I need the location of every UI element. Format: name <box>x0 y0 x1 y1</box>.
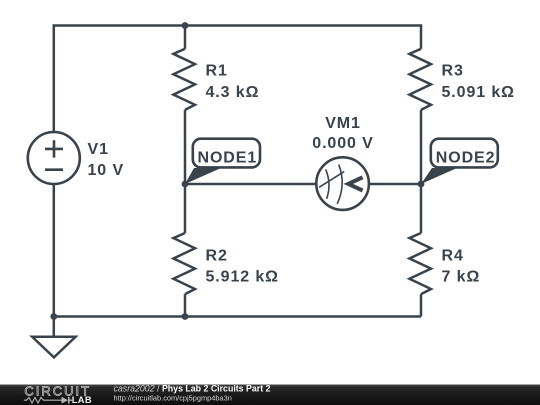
svg-text:V1: V1 <box>88 141 109 158</box>
footer bar <box>0 385 540 405</box>
wire left lower (V1 bottom to bottom rail) <box>53 184 56 317</box>
svg-text:VM1: VM1 <box>325 115 361 132</box>
svg-text:7 kΩ: 7 kΩ <box>442 268 481 285</box>
wire R1 top lead <box>184 26 187 49</box>
voltmeter VM1 symbol <box>316 157 369 210</box>
wire bottom rail <box>54 315 421 318</box>
CircuitLab logo resistor squiggle <box>24 397 62 403</box>
resistor R4 zigzag <box>409 233 431 294</box>
junction top of R1 branch <box>182 22 189 29</box>
svg-text:LAB: LAB <box>72 395 92 405</box>
node NODE1 callout <box>185 139 260 184</box>
node A junction NODE1 <box>182 181 189 188</box>
wire NODE2 to R4 <box>420 184 423 233</box>
wire R3 bottom lead to NODE2 <box>420 110 423 184</box>
resistor R2 zigzag <box>173 233 195 294</box>
svg-text:5.091 kΩ: 5.091 kΩ <box>442 84 515 101</box>
resistor R1 zigzag <box>173 49 195 110</box>
wire left upper (top rail to V1 top) <box>53 26 56 133</box>
svg-text:http://circuitlab.com/cpj5pgmp: http://circuitlab.com/cpj5pgmp4ba3n <box>114 394 232 403</box>
wire top rail <box>54 26 421 27</box>
wire R2 bottom lead <box>184 294 187 316</box>
ground <box>32 317 75 358</box>
svg-text:NODE1: NODE1 <box>198 149 258 166</box>
wire R3 top lead <box>420 26 423 49</box>
CircuitLab logo diode <box>62 397 73 404</box>
node NODE2 callout <box>421 139 498 184</box>
svg-text:4.3 kΩ: 4.3 kΩ <box>206 84 260 101</box>
resistor R3 zigzag <box>409 49 431 110</box>
wire R1 bottom lead to NODE1 <box>184 110 187 184</box>
svg-text:R2: R2 <box>206 247 228 264</box>
node B junction NODE2 <box>418 181 425 188</box>
wire R4 bottom lead <box>420 294 423 316</box>
junction R2 bottom <box>182 313 189 320</box>
wire NODE1 to voltmeter <box>185 183 316 186</box>
junction ground tap <box>50 313 57 320</box>
svg-text:0.000 V: 0.000 V <box>312 135 373 152</box>
svg-text:10 V: 10 V <box>88 162 125 179</box>
svg-text:NODE2: NODE2 <box>436 149 496 166</box>
svg-text:R4: R4 <box>442 247 464 264</box>
svg-text:R3: R3 <box>442 63 464 80</box>
voltage source V1 symbol <box>28 132 80 184</box>
svg-text:R1: R1 <box>206 63 228 80</box>
svg-text:casra2002 / Phys Lab 2 Circuit: casra2002 / Phys Lab 2 Circuits Part 2 <box>114 384 271 394</box>
svg-text:5.912 kΩ: 5.912 kΩ <box>206 268 279 285</box>
wire NODE1 to R2 <box>184 184 187 233</box>
wire voltmeter to NODE2 <box>369 183 421 186</box>
